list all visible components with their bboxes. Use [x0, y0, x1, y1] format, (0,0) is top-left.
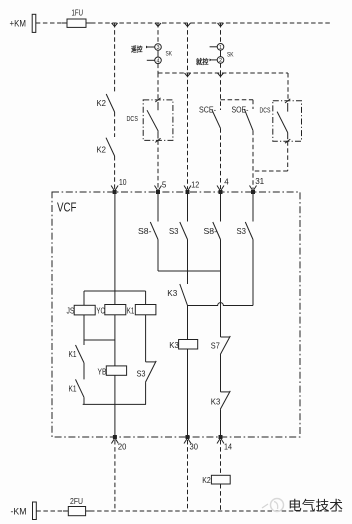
svg-text:遥控: 遥控 — [131, 45, 143, 54]
svg-text:K3: K3 — [169, 340, 179, 350]
svg-text:2FU: 2FU — [70, 496, 83, 506]
wire — [220, 240, 222, 338]
svg-text:1: 1 — [219, 45, 222, 51]
wire to node14 — [220, 409, 222, 435]
svg-text:SK: SK — [227, 52, 234, 59]
wire to node 5 — [157, 140, 159, 189]
watermark — [262, 498, 343, 513]
svg-text:K2: K2 — [97, 145, 107, 155]
enclosure DCS left — [143, 100, 173, 140]
wire node30 down — [187, 440, 189, 511]
svg-text:10: 10 — [119, 177, 127, 187]
node 30 — [186, 435, 190, 439]
node 12 — [184, 186, 191, 192]
coil K1 — [135, 305, 156, 315]
node -KM terminal — [33, 502, 37, 520]
wire SK12 drop — [220, 23, 222, 44]
wire — [220, 355, 222, 392]
junction tick — [218, 23, 224, 27]
wire top rail right — [91, 22, 332, 24]
contact S8- (4) — [213, 222, 221, 240]
svg-text:12: 12 — [191, 180, 199, 190]
wire below SK4 — [157, 64, 159, 73]
coil YC — [105, 305, 126, 315]
boundary tick — [285, 139, 290, 143]
wire — [114, 112, 116, 137]
svg-text:就控: 就控 — [196, 57, 209, 66]
wire — [187, 240, 189, 285]
svg-text:31: 31 — [255, 176, 264, 186]
svg-text:14: 14 — [224, 442, 232, 452]
contact S3 (31) — [245, 222, 253, 240]
contact S8- (5) — [150, 222, 158, 240]
wire — [83, 315, 85, 345]
wire SOE drop — [252, 100, 254, 109]
wire sub rail y73 — [158, 72, 288, 74]
SK terminal numbers — [156, 45, 222, 65]
svg-text:K3: K3 — [167, 288, 177, 298]
wire — [83, 397, 85, 404]
svg-text:5: 5 — [162, 180, 167, 190]
svg-text:4: 4 — [224, 177, 229, 187]
contact SOE — [244, 109, 253, 131]
wire node12 to S3 — [187, 194, 189, 222]
svg-text:K1: K1 — [69, 349, 77, 359]
wire node12 drop — [187, 23, 189, 189]
coil JS — [74, 305, 95, 315]
svg-text:S3: S3 — [237, 226, 247, 236]
svg-text:S7: S7 — [211, 341, 220, 351]
contact K3 NC — [221, 391, 230, 393]
wire DCS-right drop — [287, 73, 289, 101]
svg-text:2: 2 — [219, 58, 222, 64]
svg-text:SOE-: SOE- — [232, 105, 249, 115]
wire cross rail y271 — [158, 270, 221, 272]
switch SK contacts 3-4 — [155, 44, 162, 51]
coil YB — [106, 366, 126, 375]
wire rail y305 with hop — [188, 303, 254, 306]
wire SCE drop — [220, 73, 222, 110]
svg-text:SCE-: SCE- — [199, 105, 216, 115]
junction tick — [185, 23, 191, 27]
svg-text:DCS: DCS — [127, 114, 139, 123]
wire top rail left — [36, 22, 64, 24]
wire right branch — [145, 291, 147, 305]
wire DCS-left drop — [157, 73, 159, 100]
svg-text:K2: K2 — [202, 475, 211, 485]
contact K1 upper — [76, 345, 85, 363]
junction tick — [218, 73, 224, 77]
svg-text:S3: S3 — [169, 226, 179, 236]
junction tick — [185, 73, 191, 77]
wire node20 down — [114, 440, 116, 511]
contact SCE — [212, 110, 221, 128]
svg-text:YC: YC — [96, 306, 105, 316]
wire to node30 — [187, 349, 189, 435]
wire — [145, 382, 147, 404]
contact K3 (12 branch) — [180, 284, 188, 306]
wire below SK2 — [220, 63, 222, 73]
svg-text:YB: YB — [98, 367, 107, 377]
wire — [114, 315, 116, 366]
coil K3 — [179, 340, 198, 350]
wire — [83, 363, 85, 380]
switch SK contacts 1-2 — [217, 44, 224, 51]
wire jog to node31 — [287, 141, 289, 171]
boundary tick — [155, 138, 160, 142]
wire stub y340 — [84, 339, 115, 341]
enclosure VCF box — [52, 192, 300, 437]
wire K3 branch down — [187, 306, 189, 340]
coil K2 — [211, 475, 230, 484]
wire below K2 coil — [220, 484, 222, 511]
svg-text:K2: K2 — [97, 98, 107, 108]
wire — [157, 240, 159, 272]
wire to node 4 — [220, 128, 222, 189]
contact K2 lower — [106, 138, 115, 156]
wire — [114, 156, 116, 189]
wire bottom rail right — [90, 510, 342, 512]
wire K2 branch drop — [114, 23, 116, 93]
wire node4 to S8 — [220, 194, 222, 222]
contact S3 (12) — [180, 222, 188, 240]
node 4 — [217, 186, 224, 192]
svg-text:20: 20 — [118, 442, 127, 452]
node 20 — [113, 435, 117, 439]
svg-text:-KM: -KM — [11, 507, 27, 517]
node +KM terminal — [32, 14, 36, 32]
svg-text:电气技术: 电气技术 — [288, 498, 343, 513]
contact DCS left — [147, 110, 158, 131]
wire SK34 drop — [157, 23, 159, 44]
junction tick — [155, 23, 161, 27]
node 5 — [155, 186, 162, 192]
svg-text:K1: K1 — [69, 384, 77, 394]
wire node14 down — [220, 440, 222, 475]
node 31 — [250, 186, 257, 192]
boundary tick — [285, 99, 290, 103]
wire — [252, 240, 254, 306]
contact S3 NC — [146, 361, 156, 363]
enclosure DCS right — [273, 101, 302, 141]
wire node5 to S8 — [157, 194, 159, 222]
svg-text:K1: K1 — [127, 306, 135, 316]
contact DCS right — [277, 112, 288, 133]
wire relay top rail — [84, 290, 146, 292]
svg-text:1FU: 1FU — [72, 8, 84, 18]
fuse 1FU — [62, 22, 91, 24]
fuse 2FU — [63, 510, 90, 512]
wire node10 to relay rail — [114, 194, 116, 305]
wire branch to SOE — [221, 99, 254, 101]
wire left branch — [83, 291, 85, 305]
contact K2 upper — [106, 94, 114, 112]
wire node31 to S3 — [252, 194, 254, 222]
wire relay bottom rail — [83, 403, 146, 405]
boundary tick — [155, 98, 160, 102]
junction tick — [112, 23, 118, 27]
svg-text:VCF: VCF — [57, 200, 77, 215]
svg-text:3: 3 — [156, 45, 159, 51]
svg-text:+KM: +KM — [10, 19, 27, 29]
contact S7 NC — [221, 336, 230, 338]
wire bottom rail left — [36, 510, 65, 512]
node 10 — [111, 186, 118, 192]
svg-text:4: 4 — [156, 58, 159, 64]
svg-text:S8-: S8- — [204, 226, 218, 236]
wire — [114, 375, 116, 435]
svg-text:JS: JS — [67, 306, 75, 316]
node 14 — [219, 435, 223, 439]
wire to node 31 — [252, 131, 254, 189]
svg-text:DCS: DCS — [260, 106, 271, 115]
svg-text:SK: SK — [166, 51, 173, 58]
svg-text:S3: S3 — [137, 369, 146, 379]
wire — [145, 315, 147, 362]
contact K1 lower — [76, 379, 85, 397]
svg-text:K3: K3 — [211, 397, 221, 407]
svg-text:S8-: S8- — [138, 226, 152, 236]
svg-text:30: 30 — [190, 442, 199, 452]
